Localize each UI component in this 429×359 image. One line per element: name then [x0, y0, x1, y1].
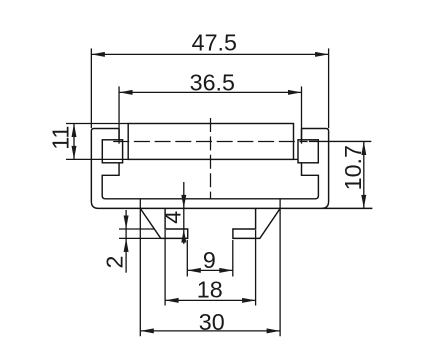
dim 30 extension lines — [139, 199, 141, 336]
dim 47.5 line — [91, 53, 328, 55]
svg-text:4: 4 — [160, 211, 186, 224]
svg-text:11: 11 — [48, 126, 74, 150]
centerline horizontal — [113, 141, 307, 143]
svg-text:30: 30 — [199, 309, 225, 335]
dim 9 extension lines — [186, 240, 188, 277]
dim 2 line — [125, 210, 127, 273]
dim 10.7 extension line — [309, 140, 371, 142]
svg-text:47.5: 47.5 — [192, 29, 237, 55]
wire slot wall right — [301, 129, 303, 140]
wire outer profile body — [91, 129, 372, 209]
dim 18 line — [165, 299, 256, 301]
node top insert bar — [128, 124, 293, 160]
dim 11 extension lines — [66, 123, 128, 125]
wire left leg — [140, 208, 187, 238]
wire outer profile right side — [302, 129, 329, 209]
svg-text:36.5: 36.5 — [190, 70, 235, 96]
dim 9 line — [187, 269, 233, 271]
centerline vertical — [210, 118, 212, 199]
dim 47.5 extension lines — [90, 48, 92, 128]
svg-text:10.7: 10.7 — [340, 145, 366, 190]
dim 18 extension lines — [164, 230, 166, 306]
dim 10.7 line — [363, 141, 365, 208]
node right groove box — [298, 140, 318, 163]
dim 30 line — [140, 330, 280, 332]
svg-text:2: 2 — [101, 256, 127, 269]
wire slot wall left — [118, 129, 120, 140]
svg-text:9: 9 — [203, 247, 216, 273]
dim 36.5 line — [119, 91, 301, 93]
svg-text:18: 18 — [197, 277, 223, 303]
wire right leg — [233, 208, 280, 238]
dim 36.5 extension lines — [118, 86, 120, 143]
dim 4 line — [183, 182, 185, 244]
dim 11 line — [73, 124, 75, 160]
node left groove box — [102, 140, 122, 163]
wire inner cavity contour — [102, 163, 318, 199]
wire bar bottom right stub — [294, 158, 299, 160]
dim 2 stub lines — [119, 228, 154, 230]
